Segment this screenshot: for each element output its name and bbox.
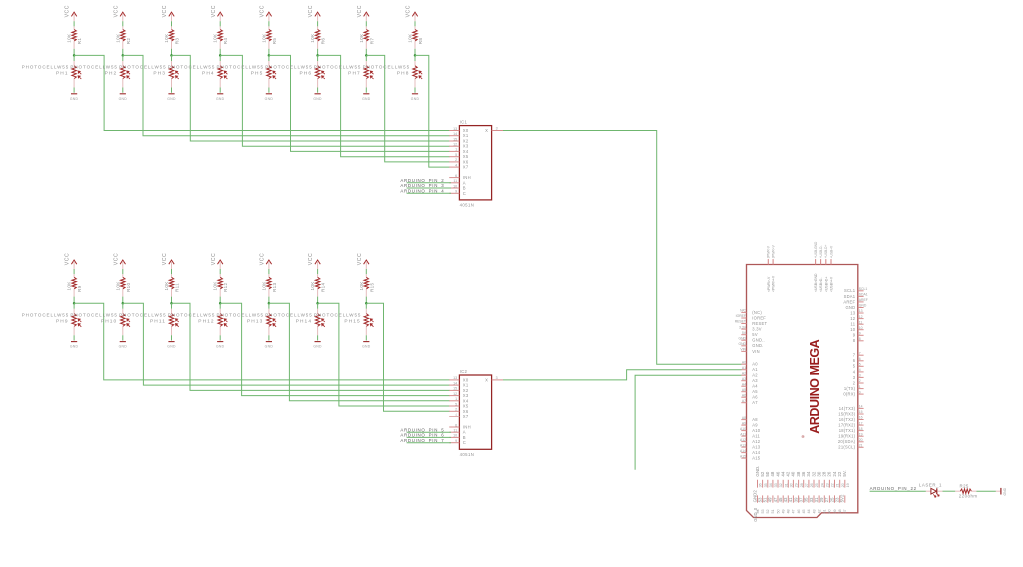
svg-text:PH1: PH1 <box>56 71 69 77</box>
resistor R4 10K <box>218 26 222 48</box>
pin U1.GND.. <box>738 336 764 342</box>
photocell PH7 PHOTOCELLW55 <box>364 55 373 87</box>
svg-text:A3: A3 <box>752 378 758 383</box>
svg-text:+USB+V: +USB+V <box>829 245 833 258</box>
photocell PH9 PHOTOCELLW55 <box>72 303 81 335</box>
svg-text:X: X <box>485 377 488 382</box>
svg-text:PH6: PH6 <box>299 71 312 77</box>
svg-text:<PWR>+V: <PWR>+V <box>772 275 776 292</box>
svg-text:<USB>GND: <USB>GND <box>814 273 818 292</box>
svg-text:A7: A7 <box>742 399 746 403</box>
pin IC2.X1 (pin 14) <box>449 381 469 387</box>
pin U1.A11 <box>740 432 760 438</box>
ground GND laser <box>996 487 1007 495</box>
power VCC PH9 <box>65 253 77 269</box>
svg-text:10K: 10K <box>261 33 266 43</box>
svg-text:19(RX1): 19(RX1) <box>838 434 855 439</box>
svg-text:10K: 10K <box>213 33 218 43</box>
svg-text:X4: X4 <box>463 149 469 154</box>
pin U1.AREF <box>843 298 867 304</box>
svg-text:ARDUINO_PIN_7: ARDUINO_PIN_7 <box>400 438 444 443</box>
svg-text:SCL1: SCL1 <box>844 288 856 293</box>
svg-text:<USB>D+: <USB>D+ <box>824 277 828 292</box>
pin IC2.X5 (pin 5) <box>449 402 469 408</box>
svg-text:A11: A11 <box>752 434 760 439</box>
pin U1.(NC) <box>740 309 762 315</box>
svg-text:PH9: PH9 <box>56 319 69 325</box>
pin U1 bottom row1 52 <box>760 471 768 487</box>
svg-text:10: 10 <box>859 326 863 330</box>
svg-text:B: B <box>463 186 466 191</box>
svg-text:9: 9 <box>859 332 861 336</box>
pin U1.RESET <box>735 320 768 326</box>
svg-text:10K: 10K <box>67 281 72 291</box>
svg-text:SDA1: SDA1 <box>844 294 856 299</box>
pin U1 bottom row2 41 <box>788 495 796 513</box>
svg-text:PHOTOCELLW55: PHOTOCELLW55 <box>168 65 216 70</box>
node junction PH9 <box>73 302 76 305</box>
node junction PH3 <box>170 54 173 57</box>
svg-text:R3: R3 <box>175 38 180 45</box>
pin U1.IOREF <box>736 314 767 320</box>
svg-text:VCC: VCC <box>65 5 71 17</box>
svg-text:SDA1: SDA1 <box>859 293 868 297</box>
svg-text:16(TX2): 16(TX2) <box>839 417 856 422</box>
wire VCC to R3 <box>171 21 173 26</box>
resistor R8 10K <box>413 26 417 48</box>
resistor R6 10K <box>315 26 319 48</box>
svg-text:3.3V: 3.3V <box>739 325 747 329</box>
photocell PH5 PHOTOCELLW55 <box>267 55 276 87</box>
svg-text:C: C <box>463 191 466 196</box>
wire VCC to R1 <box>73 21 75 26</box>
svg-text:SCL1: SCL1 <box>859 287 868 291</box>
ground GND PH11 <box>167 342 176 349</box>
svg-text:10K: 10K <box>67 33 72 43</box>
svg-text:IC1: IC1 <box>460 119 468 124</box>
svg-text:VCC: VCC <box>113 253 119 265</box>
svg-text:A0: A0 <box>742 360 746 364</box>
pin U1 bottom row2 47 <box>773 495 781 513</box>
pin U1 bottom row2 45 <box>778 495 786 513</box>
svg-text:1: 1 <box>859 385 861 389</box>
svg-text:18: 18 <box>859 427 863 431</box>
pin U1.13 <box>850 309 863 315</box>
resistor R14 10K <box>315 274 319 296</box>
svg-text:PH8: PH8 <box>397 71 410 77</box>
pin U1 bottom row1 36 <box>801 471 809 487</box>
wire PH6 node to mux input <box>318 55 450 156</box>
pin U1 bottom row1 24 <box>832 471 840 487</box>
pin U1.20(SDA) <box>838 438 864 444</box>
svg-text:5: 5 <box>455 402 457 406</box>
svg-text:X7: X7 <box>463 414 469 419</box>
wire PH12 node to mux input <box>220 303 449 395</box>
pin U1.A1 <box>741 366 758 372</box>
wire PH3 node to mux input <box>172 55 450 141</box>
node junction PH11 <box>170 302 173 305</box>
svg-text:ARDUINO_PIN_3: ARDUINO_PIN_3 <box>400 183 444 188</box>
wire ARDUINO_PIN_22 to LASER_1 <box>870 490 926 492</box>
svg-text:2: 2 <box>455 158 457 162</box>
node junction PH12 <box>219 302 222 305</box>
pin U1.5 <box>853 363 864 369</box>
svg-text:N/C: N/C <box>740 309 746 313</box>
ground GND PH14 <box>313 342 322 349</box>
wire ARDUINO_PIN_7 to mux <box>407 442 451 444</box>
svg-text:38: 38 <box>838 509 842 513</box>
pin U1.A0 <box>741 360 758 366</box>
pin U1.SDA1 <box>844 293 868 299</box>
svg-text:GND: GND <box>1003 487 1007 495</box>
wire R2 to node <box>122 49 124 56</box>
svg-text:®: ® <box>801 435 806 438</box>
svg-text:A10: A10 <box>752 428 761 433</box>
svg-text:+USB-D+: +USB-D+ <box>824 245 828 259</box>
svg-text:PH3: PH3 <box>153 71 166 77</box>
wire R12 to node <box>219 297 221 304</box>
svg-text:10K: 10K <box>164 281 169 291</box>
power VCC PH5 <box>260 5 272 21</box>
pin U1 bottom row1 42 <box>786 471 794 487</box>
wire R14 to node <box>317 297 319 304</box>
pin U1 bottom row1 44 <box>781 471 789 487</box>
svg-text:10K: 10K <box>261 281 266 291</box>
resistor R1 10K <box>72 26 76 48</box>
wire PH15 to GND <box>365 335 367 340</box>
svg-text:GND.: GND. <box>752 343 763 348</box>
pin IC1.X4 (pin 1) <box>449 148 469 154</box>
svg-text:4: 4 <box>455 163 457 167</box>
svg-text:PHOTOCELLW55: PHOTOCELLW55 <box>119 313 167 318</box>
pin U1 bottom row1 5V. <box>842 470 850 487</box>
wire PH12 to GND <box>219 335 221 340</box>
wire PH9 node to mux input <box>74 303 450 380</box>
svg-text:ARDUINO_PIN_22: ARDUINO_PIN_22 <box>870 486 917 491</box>
ground GND PH5 <box>265 94 274 101</box>
svg-text:32: 32 <box>779 483 783 487</box>
svg-text:VCC: VCC <box>308 253 314 265</box>
wire PH5 node to mux input <box>269 55 450 151</box>
svg-text:R5: R5 <box>272 38 277 45</box>
svg-text:GND: GND <box>738 342 746 346</box>
svg-text:35: 35 <box>764 483 768 487</box>
wire IC1.X to Arduino A0 <box>503 131 742 365</box>
svg-text:B: B <box>463 435 466 440</box>
wire to Arduino A2 <box>635 375 741 470</box>
pin U1.5V <box>741 331 758 337</box>
wire R9 to node <box>73 297 75 304</box>
wire R11 to node <box>171 297 173 304</box>
svg-text:A6: A6 <box>752 395 758 400</box>
ground GND PH6 <box>313 94 322 101</box>
svg-text:R11: R11 <box>175 283 180 292</box>
svg-text:1: 1 <box>455 397 457 401</box>
svg-text:ARDUINO MEGA: ARDUINO MEGA <box>808 339 822 433</box>
svg-text:A14: A14 <box>740 449 746 453</box>
svg-text:12: 12 <box>453 392 457 396</box>
svg-text:4: 4 <box>859 368 861 372</box>
svg-text:GND: GND <box>362 97 371 101</box>
resistor R11 10K <box>169 274 173 296</box>
svg-text:X1: X1 <box>463 133 469 138</box>
pin U1.21(SCL) <box>838 444 863 450</box>
svg-text:5V: 5V <box>742 331 747 335</box>
ground GND PH9 <box>70 342 79 349</box>
svg-text:29: 29 <box>795 483 799 487</box>
svg-text:10: 10 <box>453 184 457 188</box>
pin IC2.B (pin 10) <box>449 434 466 440</box>
svg-text:3.3V: 3.3V <box>752 327 761 332</box>
power VCC PH6 <box>308 5 320 21</box>
wire LASER_1 to R25 <box>943 490 956 492</box>
resistor R9 10K <box>72 274 76 296</box>
svg-text:A6: A6 <box>742 393 746 397</box>
svg-text:A1: A1 <box>742 366 746 370</box>
wire ARDUINO_PIN_4 to mux <box>407 192 451 194</box>
wire PH1 to GND <box>73 88 75 93</box>
svg-text:15(RX3): 15(RX3) <box>838 411 855 416</box>
photocell PH1 PHOTOCELLW55 <box>72 55 81 87</box>
photocell PH4 PHOTOCELLW55 <box>218 55 227 87</box>
pin U1.17(RX2) <box>838 421 863 427</box>
svg-text:37: 37 <box>843 509 847 513</box>
pin U1 top &lt;PWR&gt;-V <box>767 245 771 292</box>
svg-text:20(SDA): 20(SDA) <box>838 439 856 444</box>
pin IC1.INH (pin 6) <box>449 174 471 180</box>
pin U1.A8 <box>741 416 758 422</box>
pin IC1.X6 (pin 2) <box>449 158 469 164</box>
pin IC2.X2 (pin 15) <box>449 387 469 393</box>
svg-text:49: 49 <box>782 509 786 513</box>
node junction PH10 <box>122 302 125 305</box>
wire VCC to R10 <box>122 269 124 274</box>
pin U1.10 <box>850 326 863 332</box>
svg-text:RESET: RESET <box>735 320 746 324</box>
pin U1.15(RX3) <box>838 410 863 416</box>
node junction PH15 <box>365 302 368 305</box>
svg-text:21: 21 <box>836 483 840 487</box>
pin U1 bottom row1 26 <box>827 471 835 487</box>
node junction PH6 <box>316 54 319 57</box>
pin U1 bottom row1 48 <box>770 471 778 487</box>
svg-text:40: 40 <box>828 509 832 513</box>
svg-text:41: 41 <box>823 509 827 513</box>
resistor R10 10K <box>121 274 125 296</box>
svg-text:10K: 10K <box>359 281 364 291</box>
svg-text:R4: R4 <box>223 38 228 45</box>
svg-text:A14: A14 <box>752 450 761 455</box>
wire VCC to R9 <box>73 269 75 274</box>
svg-text:27: 27 <box>805 483 809 487</box>
pin U1.8 <box>853 337 864 343</box>
svg-text:16: 16 <box>859 416 863 420</box>
pin U1 bottom row2 23 <box>835 495 843 513</box>
svg-text:A8: A8 <box>742 416 746 420</box>
power VCC PH11 <box>162 253 174 269</box>
svg-text:4: 4 <box>455 413 457 417</box>
wire PH10 to GND <box>122 335 124 340</box>
power VCC PH8 <box>406 5 418 21</box>
resistor R15 10K <box>364 274 368 296</box>
pin U1.VIN <box>740 348 760 354</box>
wire VCC to R6 <box>317 21 319 26</box>
svg-text:45: 45 <box>802 509 806 513</box>
pin IC2.C (pin 9) <box>449 439 466 445</box>
svg-text:11: 11 <box>453 429 457 433</box>
svg-text:12: 12 <box>850 316 856 321</box>
wire PH7 node to mux input <box>366 55 449 161</box>
svg-text:A0: A0 <box>752 362 758 367</box>
svg-text:VCC: VCC <box>357 253 363 265</box>
wire PH14 node to mux input <box>318 303 450 406</box>
ground GND PH15 <box>362 342 371 349</box>
pin IC2.X6 (pin 2) <box>449 408 469 414</box>
svg-text:14(TX3): 14(TX3) <box>839 406 856 411</box>
pin U1.A3 <box>741 377 758 383</box>
svg-text:VCC: VCC <box>260 253 266 265</box>
wire VCC to R2 <box>122 21 124 26</box>
svg-text:JPWR-V: JPWR-V <box>767 245 771 258</box>
pin U1 top &lt;USB&gt;D+ <box>824 245 828 292</box>
wire PH2 node to mux input <box>123 55 450 135</box>
svg-text:A2: A2 <box>752 373 758 378</box>
svg-text:17: 17 <box>859 421 863 425</box>
wire PH4 to GND <box>219 88 221 93</box>
svg-text:VCC: VCC <box>211 5 217 17</box>
svg-text:12: 12 <box>859 315 863 319</box>
svg-text:4051N: 4051N <box>460 203 475 208</box>
pin U1.9 <box>853 332 864 338</box>
resistor R3 10K <box>169 26 173 48</box>
svg-text:X1: X1 <box>463 383 469 388</box>
node junction PH4 <box>219 54 222 57</box>
svg-text:220ohm: 220ohm <box>959 494 978 499</box>
pin IC1.X1 (pin 14) <box>449 132 469 138</box>
svg-text:IC2: IC2 <box>460 369 468 374</box>
pin U1.3 <box>853 374 864 380</box>
wire R6 to node <box>317 49 319 56</box>
wire VCC to R14 <box>317 269 319 274</box>
power VCC PH13 <box>260 253 272 269</box>
svg-text:17(RX2): 17(RX2) <box>838 423 855 428</box>
wire ARDUINO_PIN_6 to mux <box>407 436 451 438</box>
svg-text:R13: R13 <box>272 283 277 292</box>
svg-text:4051N: 4051N <box>460 452 475 457</box>
svg-text:ARDUINO_PIN_6: ARDUINO_PIN_6 <box>400 433 444 438</box>
svg-text:GND: GND <box>216 345 225 349</box>
svg-text:GND..: GND.. <box>752 338 765 343</box>
svg-text:+USB-GND: +USB-GND <box>814 241 818 258</box>
svg-text:6: 6 <box>455 423 457 427</box>
svg-text:GND: GND <box>313 97 322 101</box>
pin U1.A13 <box>740 443 761 449</box>
pin U1.A2 <box>741 371 758 377</box>
wire PH1 node to mux input <box>74 55 450 130</box>
power VCC PH4 <box>211 5 223 21</box>
pin IC2.X3 (pin 12) <box>449 392 469 398</box>
svg-text:A13: A13 <box>740 443 746 447</box>
pin U1 top &lt;USB&gt;+V <box>829 245 833 292</box>
svg-text:PHOTOCELLW55: PHOTOCELLW55 <box>265 65 313 70</box>
svg-text:GND: GND <box>845 305 855 310</box>
wire IC2.X to Arduino A1 <box>503 370 742 380</box>
svg-text:42: 42 <box>817 509 821 513</box>
ground GND PH13 <box>265 342 274 349</box>
svg-text:VCC: VCC <box>162 5 168 17</box>
svg-text:14: 14 <box>453 132 457 136</box>
svg-text:PHOTOCELLW55: PHOTOCELLW55 <box>217 65 265 70</box>
svg-text:18(TX1): 18(TX1) <box>839 428 856 433</box>
svg-text:13: 13 <box>453 376 457 380</box>
svg-text:R10: R10 <box>126 283 131 292</box>
svg-text:0(RX): 0(RX) <box>843 392 855 397</box>
pin IC2.X (pin 3) <box>485 376 503 383</box>
svg-text:A7: A7 <box>752 400 758 405</box>
svg-text:A8: A8 <box>752 417 758 422</box>
svg-text:44: 44 <box>807 509 811 513</box>
wire ARDUINO_PIN_5 to mux <box>407 431 451 433</box>
svg-text:48: 48 <box>787 509 791 513</box>
svg-text:10K: 10K <box>164 33 169 43</box>
svg-text:10: 10 <box>453 434 457 438</box>
pin U1.11 <box>851 320 864 326</box>
svg-text:3: 3 <box>496 376 498 380</box>
svg-text:PH15: PH15 <box>344 319 360 325</box>
svg-text:PH4: PH4 <box>202 71 215 77</box>
svg-text:VIN: VIN <box>740 348 746 352</box>
svg-text:12: 12 <box>453 143 457 147</box>
svg-text:2: 2 <box>455 408 457 412</box>
svg-text:R7: R7 <box>369 38 374 45</box>
svg-text:3: 3 <box>859 374 861 378</box>
svg-text:R9: R9 <box>77 285 82 292</box>
wire PH5 to GND <box>268 88 270 93</box>
svg-text:GND: GND <box>313 345 322 349</box>
svg-text:9: 9 <box>455 439 457 443</box>
svg-text:11: 11 <box>859 320 863 324</box>
pin U1 bottom row2 25 <box>829 495 837 513</box>
svg-text:19: 19 <box>859 432 863 436</box>
svg-text:A4: A4 <box>752 384 758 389</box>
svg-text:VCC: VCC <box>308 5 314 17</box>
svg-text:R1: R1 <box>77 38 82 45</box>
node junction PH13 <box>268 302 271 305</box>
svg-text:R6: R6 <box>321 38 326 45</box>
pin U1.A10 <box>740 427 761 433</box>
svg-text:PHOTOCELLW55: PHOTOCELLW55 <box>314 65 362 70</box>
svg-text:GND: GND <box>119 97 128 101</box>
svg-text:GND: GND <box>119 345 128 349</box>
ground GND PH7 <box>362 94 371 101</box>
svg-text:R12: R12 <box>223 283 228 292</box>
pin U1 top &lt;USB&gt;GND <box>814 241 818 292</box>
svg-text:PHOTOCELLW55: PHOTOCELLW55 <box>70 65 118 70</box>
svg-text:A15: A15 <box>752 456 761 461</box>
svg-text:GND: GND <box>70 345 79 349</box>
wire PH6 to GND <box>317 88 319 93</box>
IC U1 ARDUINO MEGA board outline <box>747 265 858 518</box>
pin U1.A9 <box>741 421 758 427</box>
svg-text:5V: 5V <box>752 332 758 337</box>
pin U1 bottom row1 34 <box>806 471 814 487</box>
wire R25 to GND <box>976 490 996 492</box>
svg-text:A2: A2 <box>742 371 746 375</box>
svg-text:PHOTOCELLW55: PHOTOCELLW55 <box>314 313 362 318</box>
svg-text:R14: R14 <box>321 283 326 292</box>
pin IC2.INH (pin 6) <box>449 423 471 429</box>
wire PH14 to GND <box>317 335 319 340</box>
